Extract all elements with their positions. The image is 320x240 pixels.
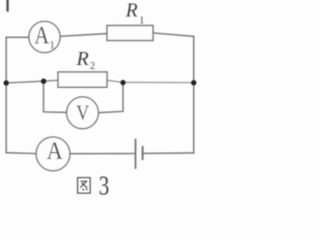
svg-text:V: V (76, 100, 89, 124)
svg-text:3: 3 (99, 171, 110, 200)
svg-text:A: A (47, 138, 63, 165)
svg-text:1: 1 (49, 40, 55, 52)
svg-text:1: 1 (139, 15, 144, 26)
svg-text:A: A (34, 23, 49, 50)
svg-text:R: R (76, 48, 89, 70)
svg-text:R: R (125, 1, 138, 22)
svg-text:2: 2 (90, 61, 95, 72)
